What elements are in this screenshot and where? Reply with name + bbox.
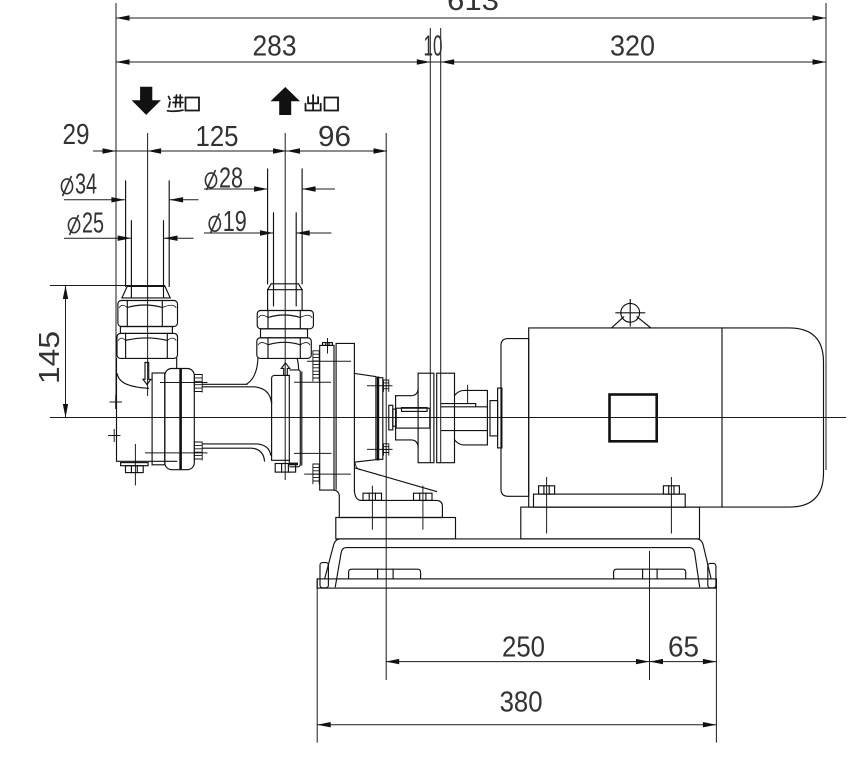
svg-text:96: 96 <box>318 121 351 153</box>
svg-text:25: 25 <box>82 208 104 240</box>
svg-text:125: 125 <box>196 121 239 153</box>
svg-text:145: 145 <box>34 331 66 384</box>
svg-text:613: 613 <box>447 0 499 17</box>
svg-text:65: 65 <box>668 632 699 664</box>
svg-text:250: 250 <box>502 632 545 664</box>
svg-text:380: 380 <box>500 687 543 719</box>
svg-text:34: 34 <box>75 169 97 201</box>
svg-text:283: 283 <box>253 31 297 63</box>
svg-text:29: 29 <box>63 119 90 151</box>
svg-text:19: 19 <box>223 206 247 238</box>
svg-text:10: 10 <box>424 31 443 63</box>
svg-text:320: 320 <box>610 31 655 63</box>
svg-text:28: 28 <box>219 163 243 195</box>
